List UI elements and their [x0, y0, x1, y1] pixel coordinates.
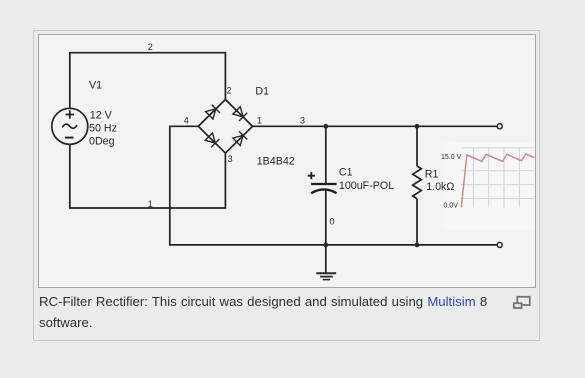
svg-text:1: 1: [257, 115, 262, 125]
svg-text:0.0V: 0.0V: [444, 203, 459, 210]
svg-text:0: 0: [330, 217, 335, 227]
svg-text:1: 1: [148, 199, 153, 209]
svg-text:C1: C1: [339, 167, 353, 179]
svg-text:3: 3: [300, 115, 305, 125]
svg-text:2: 2: [227, 86, 232, 96]
svg-text:4: 4: [184, 115, 189, 125]
svg-text:R1: R1: [425, 168, 439, 180]
svg-text:D1: D1: [255, 86, 269, 98]
svg-text:15.0 V: 15.0 V: [441, 154, 462, 161]
svg-text:0Deg: 0Deg: [89, 136, 115, 148]
svg-text:3: 3: [228, 154, 233, 164]
svg-text:50 Hz: 50 Hz: [89, 122, 117, 134]
svg-text:1B4B42: 1B4B42: [257, 156, 295, 168]
svg-text:1.0kΩ: 1.0kΩ: [426, 181, 454, 193]
svg-text:12 V: 12 V: [90, 109, 113, 121]
svg-text:V1: V1: [89, 80, 102, 92]
svg-text:2: 2: [148, 42, 153, 52]
svg-text:100uF-POL: 100uF-POL: [339, 180, 394, 192]
